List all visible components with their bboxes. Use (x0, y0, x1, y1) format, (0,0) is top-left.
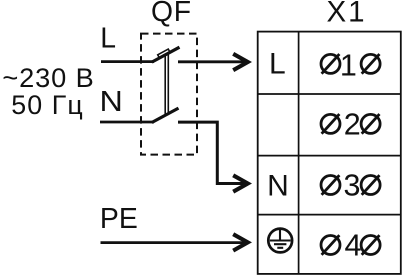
terminal 4 screw symbols (321, 235, 380, 255)
arrow to terminal L (233, 54, 248, 70)
terminal block X1 outer frame (258, 32, 401, 274)
svg-text:50 Гц: 50 Гц (11, 90, 84, 120)
breaker QF pole 1 blade (152, 47, 180, 62)
svg-text:N: N (267, 170, 289, 203)
breaker QF pole 2 blade (152, 108, 179, 122)
wire L input (101, 60, 154, 63)
wire PE (101, 241, 247, 244)
svg-text:X1: X1 (326, 0, 366, 28)
svg-text:1: 1 (340, 49, 357, 83)
svg-text:L: L (100, 21, 116, 53)
svg-text:4: 4 (345, 228, 362, 262)
node N label (100, 86, 123, 118)
svg-text:N: N (100, 86, 123, 118)
terminal block X1 row divider 3 (258, 214, 401, 216)
terminal block X1 row divider 2 (258, 155, 401, 157)
breaker QF mechanical link (165, 53, 168, 116)
svg-text:~230 В: ~230 В (2, 62, 94, 93)
breaker QF release rectangle (158, 49, 170, 58)
arrow to terminal PE (233, 234, 248, 250)
svg-text:3: 3 (344, 169, 361, 203)
svg-text:2: 2 (344, 107, 361, 141)
wire N output to terminal 3 (178, 122, 246, 183)
wire N input (100, 121, 154, 124)
terminal PE earth symbol (268, 229, 292, 253)
svg-text:PE: PE (100, 203, 138, 235)
terminal 2 screw symbols (321, 114, 380, 134)
terminal block X1 row divider 1 (258, 93, 401, 95)
breaker QF dashed outline box (141, 34, 197, 155)
wire L output to terminal 1 (178, 60, 246, 63)
arrow to terminal N (233, 175, 248, 191)
svg-text:QF: QF (151, 0, 192, 27)
terminal 3 screw symbols (321, 175, 380, 195)
terminal block X1 column divider (298, 32, 300, 274)
svg-text:L: L (269, 48, 286, 81)
terminal 1 screw symbols (321, 54, 380, 74)
